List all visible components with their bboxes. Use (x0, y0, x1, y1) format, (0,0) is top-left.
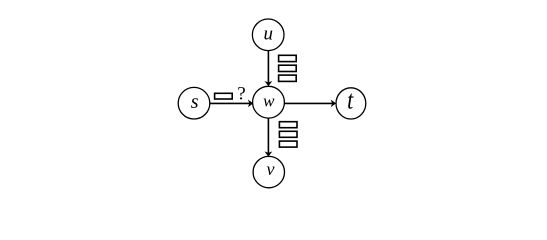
packet rectangle stack top 3 (279, 75, 297, 81)
node w (253, 86, 285, 118)
edge w to t (arrow) (285, 100, 337, 108)
packet rectangle stack top 2 (279, 65, 297, 71)
svg-text:?: ? (237, 84, 245, 105)
svg-text:w: w (263, 91, 275, 110)
edge s to w (arrow) (210, 100, 253, 108)
svg-text:v: v (267, 159, 275, 179)
packet rectangle stack top 1 (279, 55, 297, 61)
packet rectangle near s (215, 93, 233, 99)
node v (253, 156, 284, 187)
svg-text:u: u (263, 23, 273, 44)
edge w to v (arrow) (265, 118, 273, 157)
edge u to w (arrow) (265, 51, 273, 87)
svg-text:s: s (191, 91, 199, 113)
node u (252, 19, 284, 51)
packet rectangle stack bottom 1 (279, 122, 297, 128)
packet rectangle stack bottom 2 (279, 131, 297, 137)
node t (336, 87, 366, 119)
node s (178, 87, 210, 119)
packet rectangle stack bottom 3 (279, 141, 297, 147)
